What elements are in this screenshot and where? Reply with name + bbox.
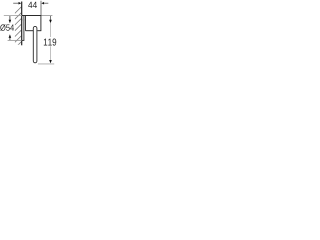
119 dim line upper stem xyxy=(50,16,52,20)
119 bottom extension line xyxy=(38,63,54,65)
top extension line (d54 left + 119 right) xyxy=(4,15,22,17)
d54 lower arrowhead xyxy=(9,34,12,38)
119 text xyxy=(44,39,56,46)
wall face line xyxy=(21,2,23,46)
hanging rod with round top arch and round bottom xyxy=(33,26,37,62)
d54 upper arrow stem xyxy=(9,16,11,20)
d54 lower arrow stem xyxy=(9,38,11,41)
d54 text xyxy=(0,24,14,31)
44 dim line left tail xyxy=(13,2,18,4)
119 lower arrowhead xyxy=(49,60,52,63)
44 dim right arrowhead xyxy=(41,2,44,5)
d54 upper arrowhead xyxy=(9,20,12,23)
body bottom edge left segment xyxy=(26,30,34,32)
44 dim left arrowhead xyxy=(19,2,22,5)
119 upper arrowhead xyxy=(49,20,52,23)
flange (wall plate) right edge xyxy=(23,16,25,41)
119 dim line upper xyxy=(50,23,52,37)
119 dim line lower xyxy=(50,46,52,60)
d54 bottom extension line xyxy=(8,39,22,41)
44 dim: right extension line (body edge extended up) xyxy=(40,1,42,16)
body right edge xyxy=(40,16,42,31)
body bottom edge right segment xyxy=(37,30,41,32)
wall hatch lines xyxy=(15,7,22,48)
44 text xyxy=(28,2,37,8)
mystery bracket line xyxy=(22,19,25,21)
44 dim line right tail xyxy=(44,2,48,4)
flange bottom edge xyxy=(22,39,25,41)
body top edge xyxy=(22,15,41,17)
body left edge xyxy=(25,16,27,31)
